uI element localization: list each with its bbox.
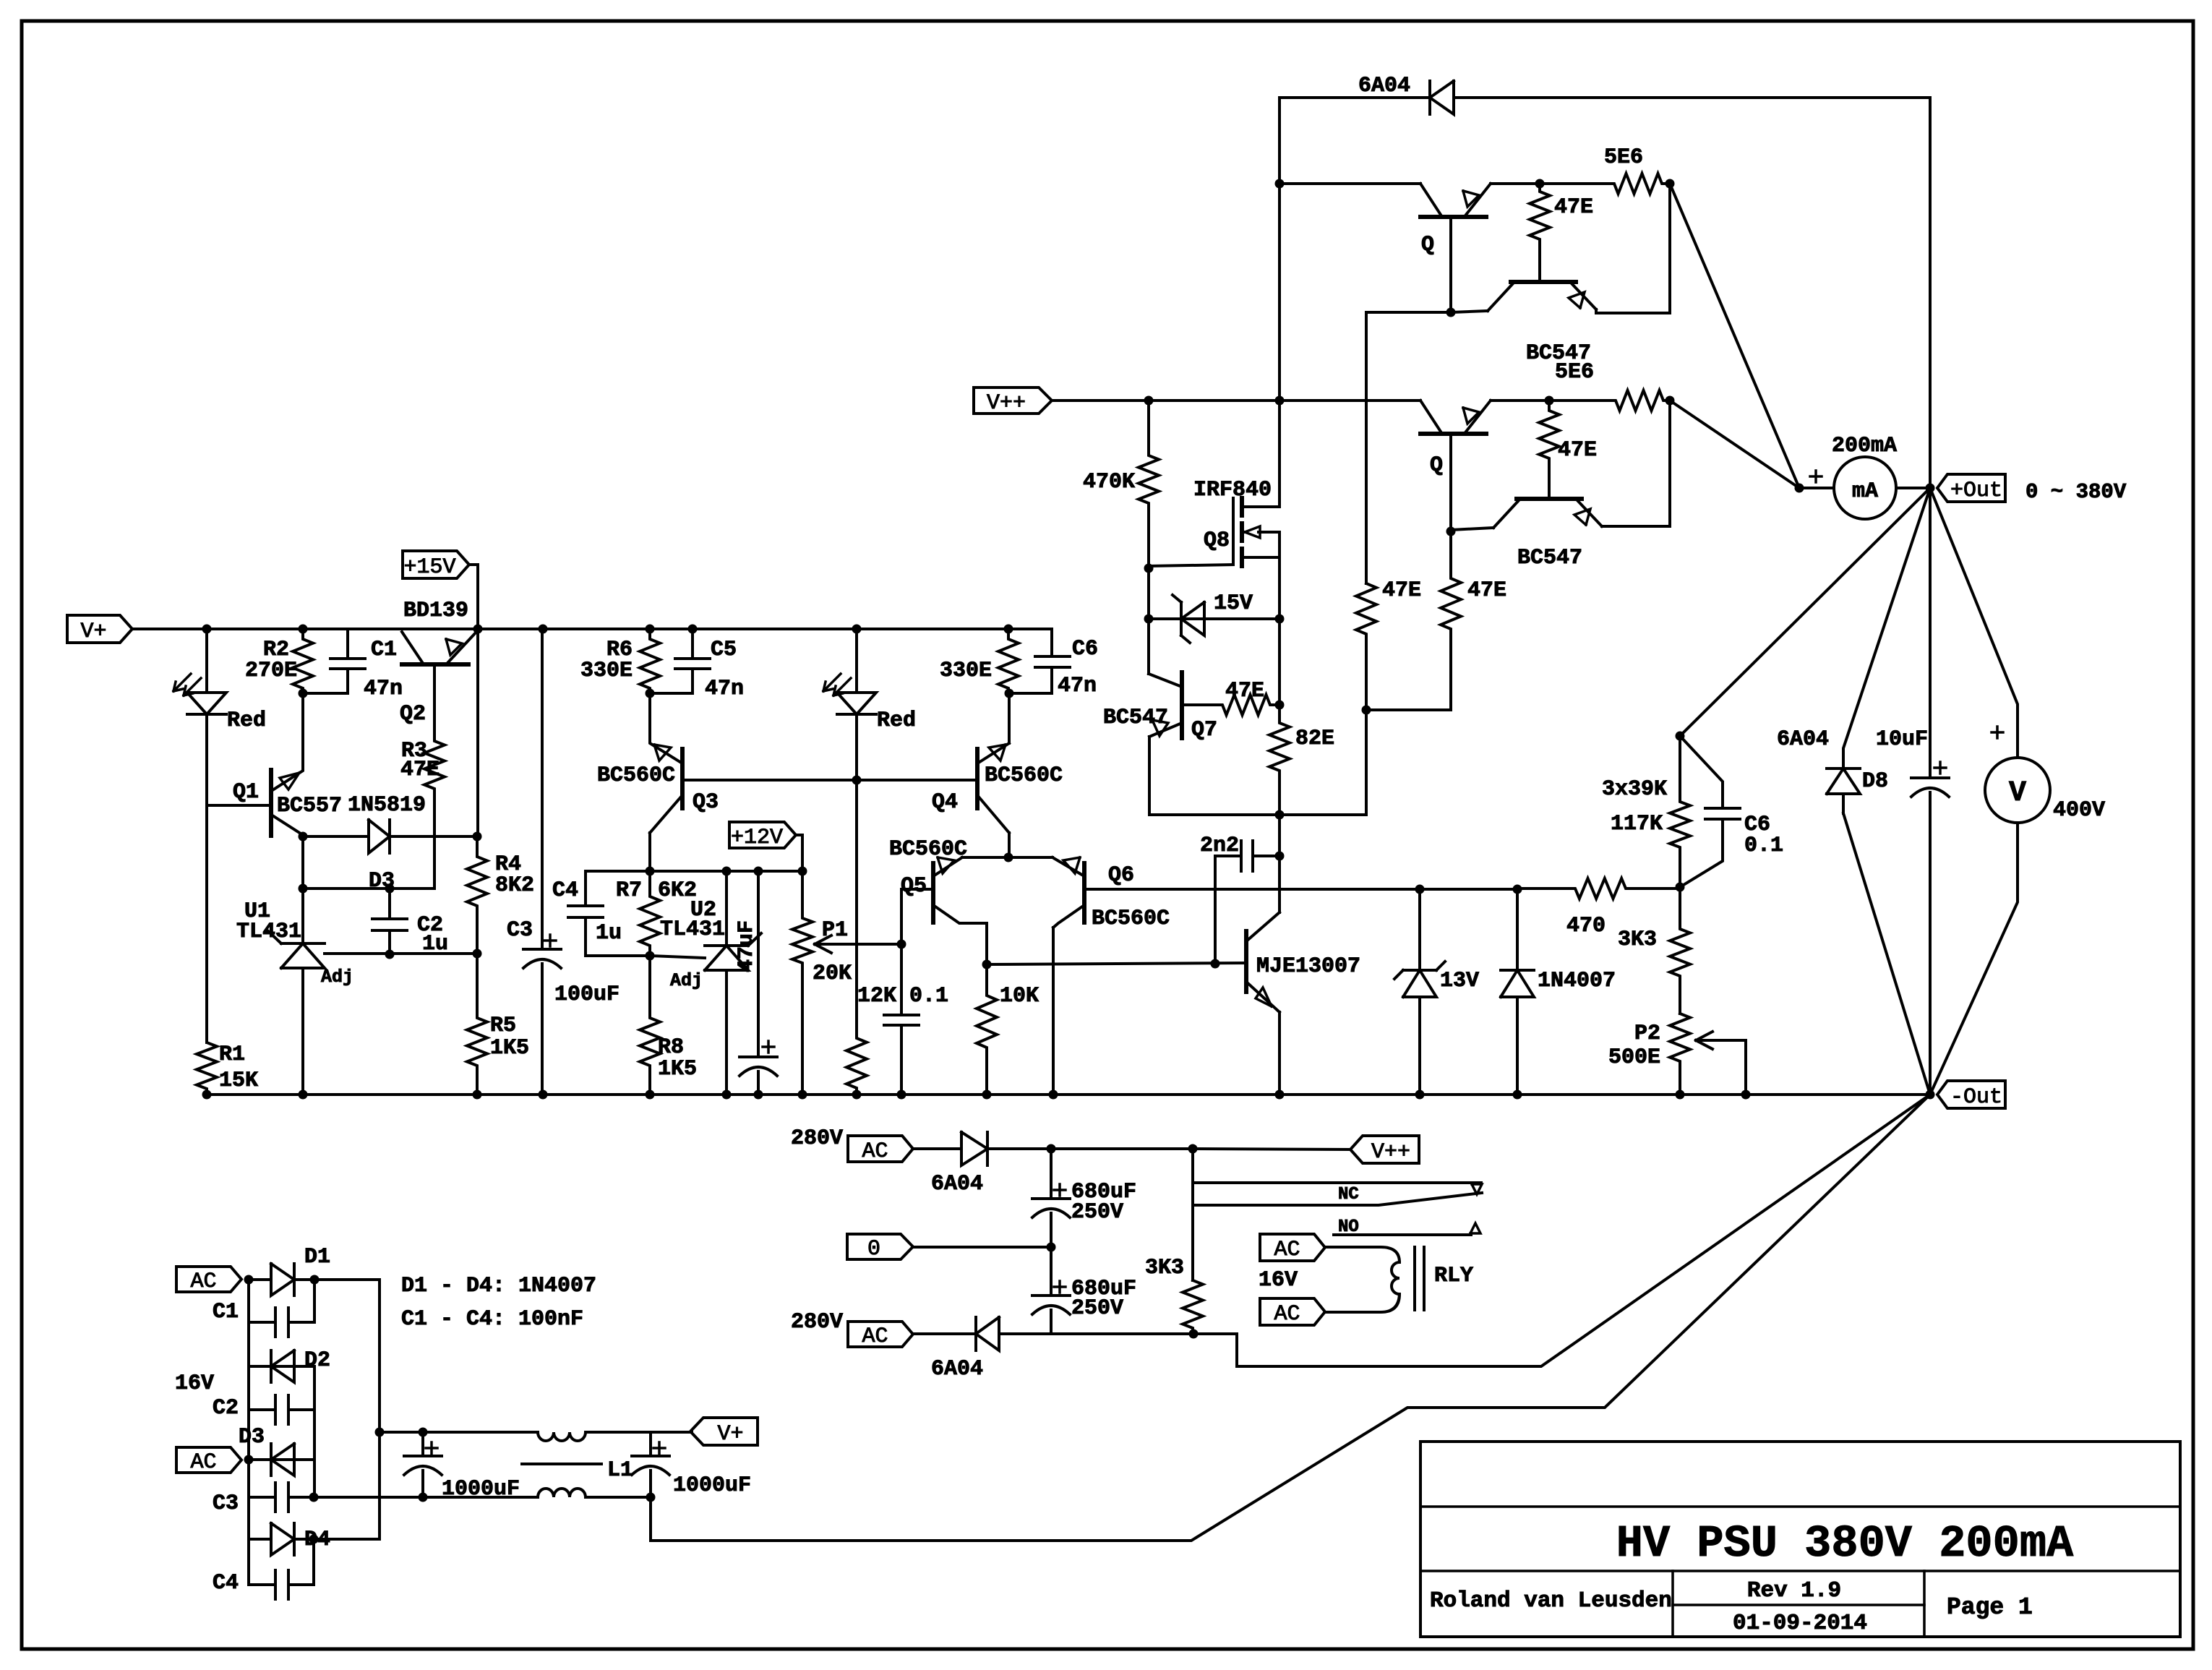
svg-text:Q: Q xyxy=(1430,453,1443,478)
node +12V/U2 xyxy=(722,867,732,876)
label BC560C Q6 xyxy=(1092,907,1170,931)
svg-text:47E: 47E xyxy=(1554,195,1593,220)
note D1-D4 xyxy=(401,1274,596,1298)
node +Out xyxy=(1926,484,1935,493)
resistor 5E6 upper xyxy=(1540,174,1670,194)
wire MJE base line xyxy=(987,963,1246,964)
wire 5E6b diag xyxy=(1670,401,1799,488)
label R4 xyxy=(495,852,521,877)
resistor R5 1K5 xyxy=(467,954,487,1095)
capacitor 1000uF a xyxy=(404,1432,442,1497)
node Q2 emitter rail xyxy=(473,625,483,634)
node R4/R5/Adj xyxy=(473,949,482,959)
label D8 xyxy=(1862,769,1888,794)
svg-text:6A04: 6A04 xyxy=(931,1172,983,1196)
node +12V/47uF xyxy=(754,867,763,876)
transistor Q4 BC560C xyxy=(977,743,1009,833)
label 12K xyxy=(857,984,896,1009)
diode 6A04 top xyxy=(1279,81,1930,114)
svg-text:47n: 47n xyxy=(1058,674,1097,698)
wire bottom rail xyxy=(207,1093,1930,1096)
svg-text:470: 470 xyxy=(1566,914,1606,938)
wire 5E6a diag xyxy=(1670,184,1799,488)
label BC560C Q5 xyxy=(889,837,967,862)
node AC2 xyxy=(244,1455,254,1465)
label Adj U2 xyxy=(670,970,703,991)
flag 0 xyxy=(847,1234,913,1262)
svg-text:16V: 16V xyxy=(1259,1268,1298,1293)
wire right bus b xyxy=(313,1366,316,1497)
svg-text:0 ~ 380V: 0 ~ 380V xyxy=(2025,480,2127,504)
label NO xyxy=(1338,1217,1359,1237)
LED D6 Red xyxy=(823,674,876,714)
svg-text:250V: 250V xyxy=(1071,1296,1123,1321)
diode D8 6A04 xyxy=(1827,752,1860,813)
svg-text:47n: 47n xyxy=(364,677,403,701)
wire Q5 base xyxy=(901,889,933,944)
label P2 xyxy=(1634,1022,1660,1046)
wire D1-D4 bus xyxy=(314,1280,380,1539)
flag AC 280V upper xyxy=(848,1136,913,1164)
node 1N4007 top xyxy=(1513,885,1522,894)
label 680uF lower xyxy=(1071,1277,1136,1301)
node LED2 top xyxy=(852,625,862,634)
label R1 xyxy=(219,1042,245,1067)
svg-text:100uF: 100uF xyxy=(554,982,620,1007)
svg-text:6A04: 6A04 xyxy=(1358,74,1410,98)
wire V+ rail right xyxy=(586,1431,692,1434)
node 5E6a right xyxy=(1666,179,1675,189)
label MJE13007 xyxy=(1256,954,1360,979)
label Q6 xyxy=(1108,863,1134,888)
svg-text:400V: 400V xyxy=(2053,798,2105,823)
label 6A04 u280 xyxy=(931,1172,983,1196)
plus 47uF xyxy=(763,1041,774,1053)
wire to V++ flag xyxy=(1051,1147,1193,1150)
label 0~380V xyxy=(2025,480,2127,504)
label Q8 xyxy=(1204,528,1230,553)
svg-text:C3: C3 xyxy=(507,918,533,943)
label C1 bridge xyxy=(213,1300,239,1324)
node R2 bottom xyxy=(299,689,308,698)
svg-text:82E: 82E xyxy=(1295,727,1334,751)
svg-text:Red: Red xyxy=(877,708,916,733)
wire top pair rail xyxy=(1279,182,1420,185)
flag -Out xyxy=(1937,1081,2005,1110)
node R6 top xyxy=(646,625,655,634)
label 1K5 R8 xyxy=(658,1057,697,1082)
label 47uF xyxy=(734,920,759,972)
node 2n2/MJE base xyxy=(1211,959,1220,969)
svg-text:8K2: 8K2 xyxy=(495,873,534,898)
label Q lower xyxy=(1430,453,1443,478)
svg-text:HV PSU 380V 200mA: HV PSU 380V 200mA xyxy=(1616,1518,2074,1570)
svg-text:R5: R5 xyxy=(490,1014,516,1038)
wire BC547u emit xyxy=(1596,309,1670,313)
meter mA xyxy=(1834,457,1896,519)
node 0.1 rail xyxy=(897,1090,906,1100)
node 82E bottom xyxy=(1275,810,1285,820)
wire C4 right up xyxy=(312,1539,315,1585)
label 1u C4 xyxy=(596,921,622,946)
wire V++ to NC col xyxy=(1191,1149,1194,1280)
node 13V rail xyxy=(1415,1090,1425,1100)
node plus bus tap xyxy=(375,1428,385,1437)
shunt regulator U1 TL431 xyxy=(268,931,325,1095)
plus meter xyxy=(1810,471,1822,482)
svg-text:D1 - D4: 1N4007: D1 - D4: 1N4007 xyxy=(401,1274,596,1298)
node 12K rail xyxy=(852,1090,862,1100)
label 1000uF b xyxy=(673,1473,751,1498)
wire lower rail right xyxy=(586,1496,651,1499)
label C6 47n a xyxy=(1072,637,1098,661)
label 0.1 Q5 xyxy=(909,984,948,1009)
svg-text:1000uF: 1000uF xyxy=(673,1473,751,1498)
svg-text:10K: 10K xyxy=(1000,984,1039,1009)
label 2n2 xyxy=(1200,834,1239,858)
node 47E/82E xyxy=(1275,701,1285,710)
wire NC line xyxy=(1193,1181,1481,1184)
node P2 rail xyxy=(1676,1090,1685,1100)
svg-text:AC: AC xyxy=(1274,1238,1300,1262)
wire BC547u coll xyxy=(1451,311,1488,312)
svg-text:V+: V+ xyxy=(717,1422,743,1447)
node 47uF rail xyxy=(754,1090,763,1100)
capacitor C5 47n xyxy=(675,629,710,693)
resistor 47E mid2 xyxy=(1441,531,1461,710)
label 400V xyxy=(2053,798,2105,823)
label C3 bridge xyxy=(213,1491,239,1516)
svg-text:280V: 280V xyxy=(791,1126,843,1151)
resistor 470K xyxy=(1139,401,1159,568)
svg-text:15V: 15V xyxy=(1214,591,1253,616)
node 117K top xyxy=(1676,732,1685,741)
wire +Out to Vmeter xyxy=(1930,488,2018,758)
diode D3 1N5819 xyxy=(303,820,477,853)
svg-text:Adj: Adj xyxy=(670,970,703,991)
label 47n xyxy=(364,677,403,701)
resistor 47E mid1 xyxy=(1356,583,1376,710)
resistor 47E Q7 xyxy=(1182,695,1279,715)
flag V++ top xyxy=(974,387,1052,416)
wire Qu to 1890 xyxy=(1366,312,1451,583)
zener 15V xyxy=(1149,595,1279,643)
svg-text:Q8: Q8 xyxy=(1204,528,1230,553)
resistor 47E u2 xyxy=(1539,401,1559,499)
label 6A04 top xyxy=(1358,74,1410,98)
wire U2 adj xyxy=(650,956,705,958)
wire 6A04 to +Out xyxy=(1929,98,1932,488)
wire 82E link right xyxy=(1279,710,1366,815)
node 5E6b right xyxy=(1666,396,1675,406)
resistor R3 47E xyxy=(424,738,445,888)
author xyxy=(1430,1588,1672,1614)
svg-text:AC: AC xyxy=(1274,1302,1300,1327)
svg-text:P1: P1 xyxy=(822,918,848,943)
svg-text:12K: 12K xyxy=(857,984,896,1009)
label 1N4007 xyxy=(1538,969,1616,993)
svg-text:Q7: Q7 xyxy=(1191,718,1217,742)
label 250V upper xyxy=(1071,1200,1123,1225)
svg-text:Q3: Q3 xyxy=(693,790,719,815)
label 280V lower xyxy=(791,1310,843,1335)
wire +Out to 117K xyxy=(1680,488,1930,736)
capacitor C6 0.1 xyxy=(1680,736,1740,887)
capacitor C3 100n xyxy=(249,1483,314,1512)
label R5 xyxy=(490,1014,516,1038)
node P1 rail xyxy=(798,1090,807,1100)
svg-text:C1: C1 xyxy=(371,638,397,662)
label V meter xyxy=(2009,777,2026,810)
transistor Q1 BC557 xyxy=(207,770,303,836)
node Q1c/C2 link xyxy=(299,884,308,894)
svg-text:BD139: BD139 xyxy=(403,599,468,623)
node 13V top xyxy=(1415,885,1425,894)
wire Q5Q6 emitters xyxy=(962,856,1053,859)
node 3K3 bottom xyxy=(1189,1329,1199,1339)
capacitor C1 100n xyxy=(249,1308,314,1337)
label C2 xyxy=(417,913,443,938)
svg-text:Q: Q xyxy=(1421,233,1434,257)
label BC547 lower xyxy=(1517,546,1582,570)
label 6A04 D8 xyxy=(1777,727,1829,752)
label 10K xyxy=(1000,984,1039,1009)
svg-text:C1 - C4: 100nF: C1 - C4: 100nF xyxy=(401,1307,583,1332)
wire BC547l emit xyxy=(1602,525,1670,528)
wire Q5 base col xyxy=(900,944,903,1014)
wire LED2 top lead xyxy=(855,629,858,693)
resistor R2 270E xyxy=(293,629,313,693)
wire V++ rail xyxy=(1052,399,1420,402)
shunt regulator U2 TL431 xyxy=(705,871,761,1095)
svg-text:0: 0 xyxy=(867,1237,880,1262)
svg-text:L1: L1 xyxy=(607,1458,633,1483)
svg-text:3K3: 3K3 xyxy=(1145,1256,1184,1280)
node C5 top xyxy=(688,625,698,634)
capacitor 1000uF b xyxy=(632,1432,669,1497)
node 330E2 top xyxy=(1004,625,1013,634)
wire BC547l coll xyxy=(1451,528,1493,530)
svg-text:Q5: Q5 xyxy=(901,874,927,899)
wire NO line xyxy=(1334,1233,1471,1236)
potentiometer P2 500E xyxy=(1670,1014,1690,1095)
svg-text:D1: D1 xyxy=(304,1245,330,1269)
node cap1000a bot xyxy=(419,1493,428,1502)
label 15V xyxy=(1214,591,1253,616)
node AC1 xyxy=(244,1275,254,1285)
label 16V bridge xyxy=(175,1371,214,1396)
node zener left xyxy=(1144,615,1154,624)
node C3 top rail xyxy=(539,625,548,634)
label 1N5819 xyxy=(348,793,426,818)
svg-text:13V: 13V xyxy=(1440,969,1479,993)
label D3 bridge xyxy=(239,1425,265,1450)
plus 1000uF b xyxy=(653,1442,665,1454)
svg-text:5E6: 5E6 xyxy=(1555,360,1594,385)
wire U1 adj line xyxy=(325,952,477,955)
label C6 0.1 a xyxy=(1744,813,1770,837)
label 330E right xyxy=(940,659,992,683)
label R8 xyxy=(658,1035,684,1060)
wire 470K to zener xyxy=(1147,568,1150,619)
node meter in xyxy=(1795,484,1804,493)
plus V meter xyxy=(1992,727,2003,738)
svg-text:1N5819: 1N5819 xyxy=(348,793,426,818)
label Q upper xyxy=(1421,233,1434,257)
svg-text:P2: P2 xyxy=(1634,1022,1660,1046)
transistor Q5 BC560C xyxy=(933,857,987,923)
zener 13V xyxy=(1394,889,1445,1095)
svg-text:IRF840: IRF840 xyxy=(1193,478,1272,502)
svg-text:TL431: TL431 xyxy=(660,917,725,942)
svg-text:0.1: 0.1 xyxy=(1744,834,1783,858)
wire 6A04 top left xyxy=(1278,98,1281,401)
svg-text:47E: 47E xyxy=(1225,679,1264,703)
wire Q7 coll up xyxy=(1147,619,1150,674)
label 100uF xyxy=(554,982,620,1007)
title block box xyxy=(1420,1442,2180,1637)
svg-text:AC: AC xyxy=(190,1450,216,1475)
svg-text:3K3: 3K3 xyxy=(1618,928,1657,952)
flag V+ bottom xyxy=(690,1418,758,1447)
svg-text:BC560C: BC560C xyxy=(1092,907,1170,931)
node 0 junction xyxy=(1047,1243,1056,1252)
label C6 0.1 b xyxy=(1744,834,1783,858)
wire +Out to D8 xyxy=(1843,488,1930,752)
resistor R8 1K5 xyxy=(640,956,660,1095)
flag AC 280V lower xyxy=(848,1322,913,1349)
label 1u xyxy=(422,932,448,956)
resistor 330E right xyxy=(998,629,1019,693)
diode 6A04 l280 xyxy=(913,1317,1193,1350)
label BC560C Q3 xyxy=(597,763,675,788)
node cap1000a top xyxy=(419,1428,428,1437)
label 500E xyxy=(1608,1045,1660,1070)
svg-text:Q1: Q1 xyxy=(233,780,259,805)
node zener right xyxy=(1275,615,1285,624)
transistor Q9 MJE13007 xyxy=(1246,912,1279,1012)
capacitor 47uF xyxy=(740,871,777,1095)
svg-text:BC547: BC547 xyxy=(1103,706,1168,730)
svg-text:15K: 15K xyxy=(219,1069,258,1093)
svg-text:C4: C4 xyxy=(213,1571,239,1596)
svg-text:1K5: 1K5 xyxy=(658,1057,697,1082)
label 15K xyxy=(219,1069,258,1093)
node R6 bottom xyxy=(646,689,655,698)
resistor R6 330E xyxy=(640,629,660,693)
svg-text:1N4007: 1N4007 xyxy=(1538,969,1616,993)
svg-text:47n: 47n xyxy=(705,677,744,701)
capacitor C1 47n xyxy=(330,629,365,693)
wire W1 to -Out xyxy=(1193,1095,1930,1366)
transistor Q lower xyxy=(1420,401,1491,531)
svg-text:Q4: Q4 xyxy=(932,790,958,815)
wire right bus a xyxy=(313,1280,316,1322)
plus 10uF xyxy=(1934,762,1946,774)
svg-text:TL431: TL431 xyxy=(236,920,301,944)
svg-text:5E6: 5E6 xyxy=(1604,145,1643,170)
node Ql base col xyxy=(1446,527,1456,536)
page xyxy=(1947,1594,2033,1621)
wire LED1 to Q1/R1 xyxy=(205,714,208,1042)
wire Ql emit rail xyxy=(1491,399,1549,402)
node 47E2 top xyxy=(1545,396,1554,406)
wire +15V down xyxy=(469,565,478,629)
node D1 out xyxy=(310,1275,320,1285)
wire Q4c to emitters xyxy=(1008,855,1011,857)
svg-text:1u: 1u xyxy=(596,921,622,946)
note C1-C4 xyxy=(401,1307,583,1332)
inductor L1 xyxy=(522,1432,601,1497)
resistor R1 15K xyxy=(197,1038,217,1095)
node 2n2 right xyxy=(1275,852,1285,861)
wire V+ rail xyxy=(132,628,1052,630)
svg-text:BC557: BC557 xyxy=(277,794,342,818)
wire R3-C2 link xyxy=(303,887,434,890)
wire Q7 emit down xyxy=(1149,737,1279,815)
diode D4 xyxy=(249,1523,314,1555)
node cap1000b bot xyxy=(646,1493,656,1502)
svg-text:6A04: 6A04 xyxy=(931,1357,983,1382)
svg-text:D8: D8 xyxy=(1862,769,1888,794)
flag AC bridge 2 xyxy=(176,1447,241,1475)
svg-text:16V: 16V xyxy=(175,1371,214,1396)
label 16V relay xyxy=(1259,1268,1298,1293)
wire Q2e down xyxy=(476,629,479,836)
wire left bus xyxy=(247,1280,250,1585)
label 117K xyxy=(1611,812,1663,836)
wire +12V flag down xyxy=(796,835,802,871)
capacitor C3 100uF xyxy=(523,629,561,1095)
svg-text:C4: C4 xyxy=(552,878,578,903)
wire zener col down xyxy=(1278,619,1281,705)
node +12V/R7 xyxy=(646,867,655,876)
node C2/adj xyxy=(385,950,395,959)
transistor Q upper xyxy=(1420,184,1491,312)
label 3x39K xyxy=(1602,777,1667,802)
wire Q up emit rail xyxy=(1491,182,1540,185)
wire 5E6b down xyxy=(1668,401,1671,526)
label C1 xyxy=(371,638,397,662)
label 470 xyxy=(1566,914,1606,938)
svg-text:330E: 330E xyxy=(940,659,992,683)
svg-text:C6: C6 xyxy=(1072,637,1098,661)
label 270E xyxy=(245,659,297,683)
label Q3 xyxy=(693,790,719,815)
svg-text:470K: 470K xyxy=(1083,470,1135,494)
label 280V upper xyxy=(791,1126,843,1151)
wire Vmeter to -Out xyxy=(1930,823,2018,1095)
label 6A04 l280 xyxy=(931,1357,983,1382)
svg-text:+15V: +15V xyxy=(403,555,455,580)
label D1 xyxy=(304,1245,330,1269)
node Q1 collector xyxy=(299,832,308,842)
label C3 xyxy=(507,918,533,943)
label Red 2 xyxy=(877,708,916,733)
flag +12V xyxy=(729,822,796,850)
relay RLY coil xyxy=(1325,1247,1424,1312)
svg-text:mA: mA xyxy=(1852,479,1878,504)
transistor Q3 BC560C xyxy=(650,745,977,833)
svg-text:01-09-2014: 01-09-2014 xyxy=(1733,1611,1867,1636)
label TL431 U2 xyxy=(660,917,725,942)
svg-text:V++: V++ xyxy=(1371,1140,1410,1165)
resistor 470 xyxy=(1517,878,1680,899)
wire Q8 source down xyxy=(1278,557,1281,619)
svg-text:C5: C5 xyxy=(711,638,737,662)
node base rail/LED2 xyxy=(852,776,862,785)
svg-text:Q2: Q2 xyxy=(400,702,426,727)
